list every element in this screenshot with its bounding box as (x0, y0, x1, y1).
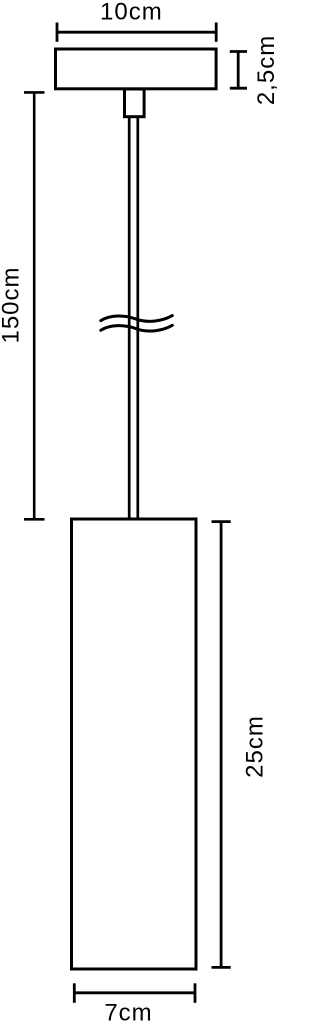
svg-text:2,5cm: 2,5cm (253, 35, 279, 105)
cable break symbol (two waves) (101, 316, 173, 331)
svg-text:25cm: 25cm (242, 715, 269, 778)
svg-text:10cm: 10cm (100, 0, 163, 25)
canopy (ceiling plate) (56, 49, 217, 89)
svg-text:150cm: 150cm (0, 266, 25, 343)
cable gland connector (125, 89, 145, 117)
lamp shade cylinder (72, 519, 197, 969)
dimension line 150cm (cable length) (24, 92, 45, 519)
dimension line 2,5cm (canopy height) (230, 52, 247, 89)
suspension cable (two lines) (129, 117, 138, 519)
svg-text:7cm: 7cm (104, 1000, 152, 1024)
dimension line 10cm (top width) (57, 23, 216, 42)
dimension line 7cm (shade width) (74, 983, 195, 1003)
dimension line 25cm (shade height) (212, 522, 231, 968)
